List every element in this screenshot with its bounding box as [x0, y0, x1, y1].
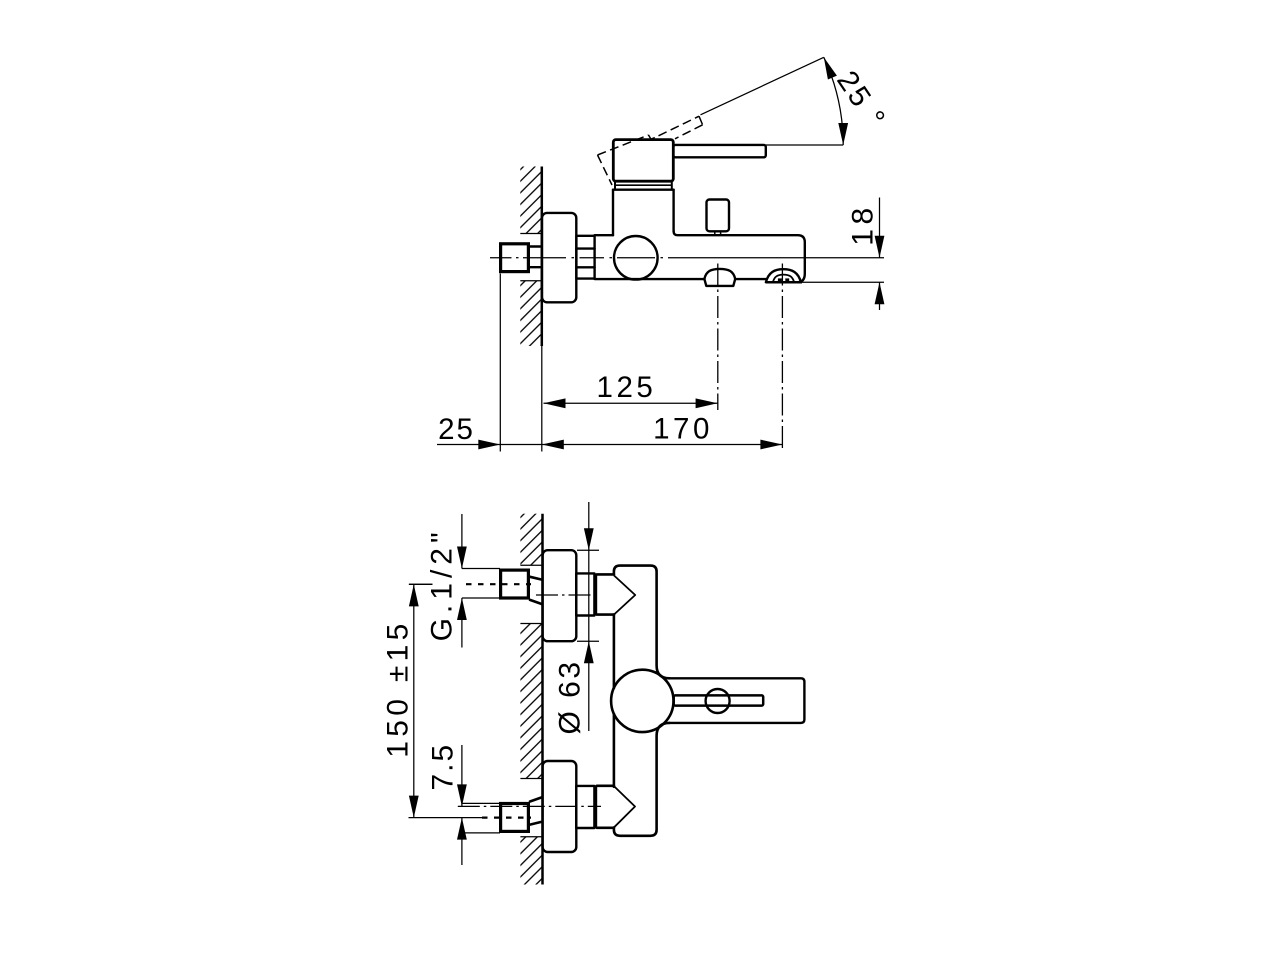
lower pipe hidden axis: [409, 817, 483, 819]
dimension 170: [542, 444, 783, 446]
upper supply pipe: [462, 568, 500, 570]
union nut (side view): [576, 236, 594, 279]
lever slot: [674, 695, 764, 705]
upper eccentric union: [530, 577, 541, 580]
wall line (plan view): [541, 514, 544, 885]
extension line from fitting: [499, 274, 501, 452]
supply pipe fitting (side view): [501, 244, 529, 272]
dimension 125: [544, 402, 718, 404]
lower wall flange (plan): [543, 761, 577, 852]
svg-text:7.5: 7.5: [427, 743, 460, 791]
svg-text:125: 125: [597, 371, 657, 404]
spout outlet: [704, 269, 735, 279]
wall line (side view): [541, 167, 544, 347]
dimension G.1/2: [461, 514, 463, 569]
svg-text:150 ±15: 150 ±15: [381, 619, 414, 757]
svg-text:25: 25: [438, 413, 475, 446]
upper wall flange (plan): [543, 550, 577, 641]
handle body (side view): [613, 140, 673, 182]
lever pivot circle: [706, 689, 730, 713]
25 deg angle dimension: [701, 57, 824, 115]
spout centerline: [717, 264, 719, 411]
diverter knob: [707, 200, 730, 232]
lever arm (side view): [673, 145, 766, 157]
upper port centerline: [536, 594, 601, 596]
upper port cone: [614, 575, 635, 614]
raised handle dashed outline: [598, 155, 613, 185]
svg-text:18: 18: [847, 203, 880, 245]
svg-text:Ø 63: Ø 63: [554, 659, 587, 734]
cartridge housing column (side view): [612, 190, 614, 236]
lower port cone: [614, 786, 635, 827]
shower outlet centerline: [781, 264, 783, 452]
faucet body (plan view): [614, 566, 670, 679]
shower outlet: [766, 269, 801, 282]
wall flange escutcheon (side view): [542, 213, 576, 302]
dimension 150 +/-15: [409, 583, 433, 585]
wall hatching (side view): [520, 167, 542, 234]
svg-text:170: 170: [653, 412, 713, 445]
upper union nut (plan): [576, 573, 594, 615]
lower eccentric union: [530, 822, 541, 825]
dimension dia 63: [577, 549, 599, 551]
dimension 7.5: [461, 745, 463, 806]
dimension 25: [437, 444, 542, 446]
cartridge dome circle (plan): [611, 670, 673, 732]
lower union nut (plan): [576, 786, 594, 828]
upper pipe hidden axis: [409, 583, 433, 585]
neck ring: [614, 181, 616, 190]
faucet body (side view): [595, 234, 613, 236]
wall hatching (plan view): [520, 514, 542, 566]
lever (plan view): [669, 678, 804, 723]
extension line for 18 dim: [802, 281, 884, 283]
lower port centerline: [458, 805, 601, 807]
dimension 18: [879, 198, 881, 258]
lower supply pipe: [462, 802, 500, 804]
cartridge cap circle (side view): [614, 236, 658, 280]
centerline axis (side view): [490, 257, 512, 259]
